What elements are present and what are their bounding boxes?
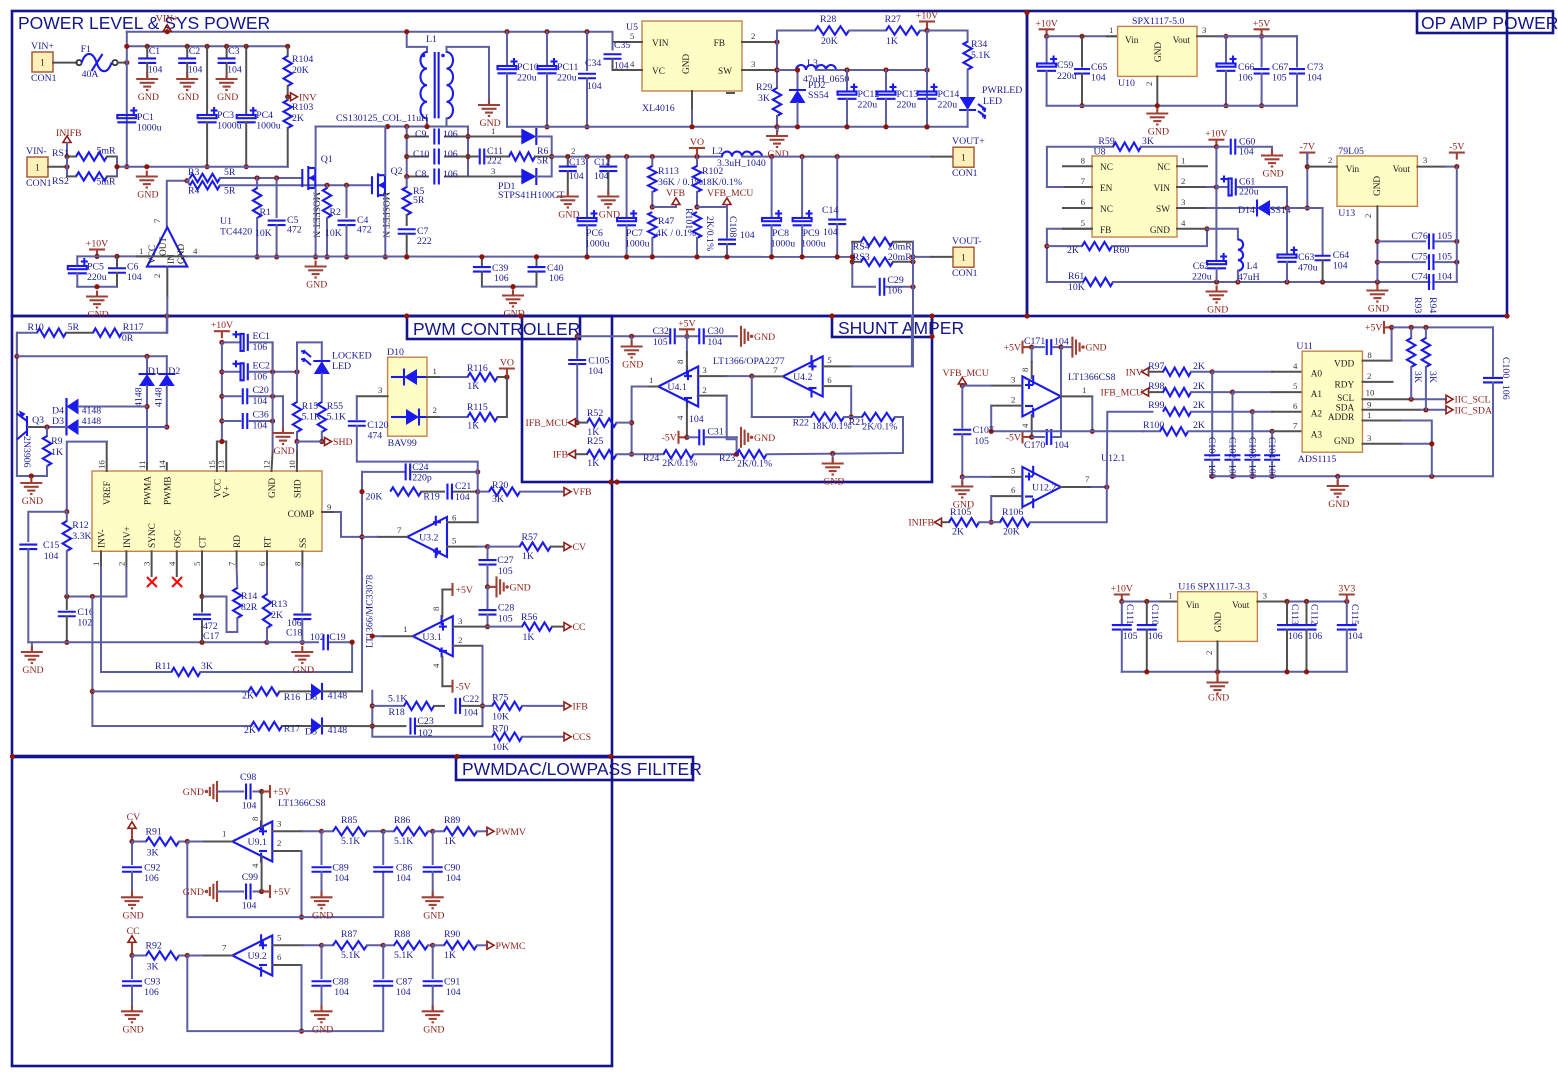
svg-text:L1: L1 xyxy=(426,34,437,45)
wire VREF xyxy=(64,442,106,515)
svg-text:4148: 4148 xyxy=(328,691,348,702)
wire U16 pin3 xyxy=(1257,591,1349,605)
svg-text:C91: C91 xyxy=(444,977,460,988)
svg-text:104: 104 xyxy=(1307,73,1322,84)
svg-text:222: 222 xyxy=(487,156,502,167)
svg-text:PC5: PC5 xyxy=(87,262,104,273)
svg-text:GND: GND xyxy=(123,910,144,921)
capacitor C31 xyxy=(687,427,737,446)
svg-text:2: 2 xyxy=(1204,651,1214,655)
svg-text:82R: 82R xyxy=(241,602,258,613)
capacitor C171 xyxy=(1024,336,1069,355)
svg-text:105: 105 xyxy=(498,614,513,625)
wire U1 IN pin2 xyxy=(166,267,168,333)
wire U12.1 out row xyxy=(991,430,1143,432)
svg-text:2: 2 xyxy=(152,274,162,278)
wire SHD xyxy=(297,442,322,472)
resistor RS4 xyxy=(852,238,913,253)
svg-text:VIN: VIN xyxy=(1153,184,1170,194)
capacitor C21 xyxy=(447,481,480,503)
svg-text:GND: GND xyxy=(22,665,43,676)
svg-text:C35: C35 xyxy=(614,40,630,51)
svg-text:IIC_SDA: IIC_SDA xyxy=(1455,405,1493,416)
svg-text:2K/0.1%: 2K/0.1% xyxy=(662,458,697,469)
svg-text:C13: C13 xyxy=(569,157,585,168)
svg-text:GND: GND xyxy=(504,309,525,320)
svg-text:472: 472 xyxy=(287,225,302,236)
power +5V U3.1 xyxy=(442,583,473,617)
op-amp U12.2 xyxy=(1022,466,1061,508)
svg-text:C18: C18 xyxy=(286,628,302,639)
resistor R97 xyxy=(1148,361,1215,376)
svg-text:3: 3 xyxy=(491,166,496,176)
diode D5 xyxy=(305,718,372,738)
capacitor C9 xyxy=(407,129,468,145)
svg-text:2: 2 xyxy=(116,562,126,566)
capacitor C23 xyxy=(372,716,482,739)
wire RS right xyxy=(114,157,119,177)
svg-text:+10V: +10V xyxy=(1205,129,1227,140)
resistor R93 xyxy=(1407,327,1415,399)
svg-text:4K / 0.1%: 4K / 0.1% xyxy=(656,228,696,239)
ground U10 xyxy=(1146,108,1169,138)
svg-text:4148: 4148 xyxy=(134,387,145,407)
svg-text:3: 3 xyxy=(1202,25,1207,35)
svg-text:220u: 220u xyxy=(1239,187,1259,198)
wire Q1 source xyxy=(313,188,318,260)
svg-text:+10V: +10V xyxy=(86,239,108,250)
svg-text:GND: GND xyxy=(1263,169,1284,180)
svg-text:R106: R106 xyxy=(1002,507,1023,518)
capacitor PC11 xyxy=(538,32,579,130)
svg-text:1K: 1K xyxy=(444,950,456,961)
wire GND return rail y167 xyxy=(117,166,288,168)
svg-text:R85: R85 xyxy=(341,815,357,826)
capacitor PC9 xyxy=(793,154,826,260)
resistor R61 xyxy=(1047,271,1113,293)
svg-text:C36: C36 xyxy=(253,410,269,421)
svg-text:104: 104 xyxy=(127,272,142,283)
capacitor C89 xyxy=(312,831,349,895)
LED LOCKED xyxy=(297,342,372,402)
power +10V U1 xyxy=(86,239,108,260)
svg-text:INV: INV xyxy=(1126,367,1143,378)
wire U3.1 pin1 xyxy=(370,624,413,639)
capacitor EC2 xyxy=(222,360,300,382)
wire +10V to C62 xyxy=(1215,147,1217,261)
svg-text:R60: R60 xyxy=(1113,245,1129,256)
svg-text:105: 105 xyxy=(1123,631,1138,642)
svg-text:SHD: SHD xyxy=(333,437,353,448)
svg-text:C8: C8 xyxy=(415,169,427,180)
wire D1 D2 cathode row xyxy=(17,355,167,357)
svg-text:104: 104 xyxy=(1054,337,1069,348)
svg-text:3: 3 xyxy=(378,385,383,395)
power flag VO xyxy=(689,137,705,157)
svg-text:LT1366CS8: LT1366CS8 xyxy=(1068,372,1116,383)
svg-text:IFB: IFB xyxy=(573,701,589,712)
power -5V U3.1 xyxy=(442,657,470,693)
ground C1 xyxy=(136,73,159,103)
svg-text:C32: C32 xyxy=(653,326,669,337)
svg-text:18K/0.1%: 18K/0.1% xyxy=(702,177,742,188)
svg-text:R20: R20 xyxy=(492,480,508,491)
ground C12 xyxy=(597,191,620,221)
svg-text:CC: CC xyxy=(573,622,586,633)
svg-text:C62: C62 xyxy=(1193,261,1209,272)
svg-text:12: 12 xyxy=(262,460,272,469)
wire shunt +5V row xyxy=(577,335,668,337)
wire -5V gnd rail xyxy=(1113,281,1430,283)
capacitor C115 xyxy=(1337,602,1363,672)
svg-text:R1: R1 xyxy=(260,207,272,218)
wire U10 gnd rail xyxy=(1047,76,1297,108)
svg-text:1: 1 xyxy=(1109,25,1113,35)
power -5V U4 xyxy=(662,431,690,444)
svg-text:R17: R17 xyxy=(284,724,300,735)
svg-text:FB: FB xyxy=(714,39,725,49)
fuse F1 xyxy=(76,44,117,80)
resistor RS2 xyxy=(67,172,117,187)
svg-text:SYNC: SYNC xyxy=(148,523,158,548)
resistor R92 xyxy=(132,941,190,973)
svg-text:PWMB: PWMB xyxy=(163,477,173,505)
svg-text:GND: GND xyxy=(423,1024,444,1035)
svg-text:R14: R14 xyxy=(241,591,257,602)
ground C88 xyxy=(311,1005,334,1035)
wire C39 C40 gnd xyxy=(473,254,546,289)
inductor L2 xyxy=(712,146,932,169)
wire U16 pin2 xyxy=(1204,641,1218,671)
svg-text:R22: R22 xyxy=(793,418,809,429)
svg-text:D6: D6 xyxy=(305,692,317,703)
svg-text:222: 222 xyxy=(417,236,432,247)
wire VO rail xyxy=(552,156,722,158)
svg-text:2: 2 xyxy=(433,405,437,415)
wire R16 R17 column xyxy=(90,597,95,727)
capacitor C4 xyxy=(338,185,372,259)
svg-text:3.3K: 3.3K xyxy=(72,531,91,542)
svg-text:1000u: 1000u xyxy=(625,239,650,250)
svg-text:C87: C87 xyxy=(396,977,412,988)
svg-text:2N3906: 2N3906 xyxy=(21,436,32,468)
svg-text:U9.2: U9.2 xyxy=(248,951,267,962)
capacitor C87 xyxy=(373,945,412,998)
capacitor C32 xyxy=(653,326,698,348)
capacitor C24 xyxy=(362,462,478,484)
svg-text:GND: GND xyxy=(138,92,159,103)
capacitor C170 xyxy=(1024,347,1069,451)
svg-text:INIFB: INIFB xyxy=(908,518,934,529)
net flag INV in xyxy=(1126,367,1149,378)
svg-text:RDY: RDY xyxy=(1335,381,1355,391)
svg-text:Q1: Q1 xyxy=(321,154,333,165)
svg-text:PC13: PC13 xyxy=(897,89,919,100)
capacitor C113 xyxy=(1277,602,1303,672)
resistor R23 xyxy=(719,450,853,470)
svg-text:4148: 4148 xyxy=(154,387,165,407)
svg-text:1000u: 1000u xyxy=(771,239,796,250)
svg-text:C12: C12 xyxy=(594,157,610,168)
svg-text:CV: CV xyxy=(127,812,141,823)
svg-text:105: 105 xyxy=(653,337,668,348)
wire D10 pin3 xyxy=(357,385,388,419)
svg-text:2K/0.1%: 2K/0.1% xyxy=(704,216,715,251)
svg-text:Vout: Vout xyxy=(1173,36,1191,46)
ground flag C98 xyxy=(183,781,217,802)
wire SCL xyxy=(1363,388,1447,402)
resistor R20 xyxy=(478,480,563,505)
svg-text:6: 6 xyxy=(277,952,282,962)
wire U8 VIN xyxy=(1177,184,1219,189)
pin number 1 U8 xyxy=(1181,155,1185,165)
svg-text:SW: SW xyxy=(1156,205,1170,215)
svg-text:R27: R27 xyxy=(885,14,901,25)
svg-text:11: 11 xyxy=(137,461,147,469)
wire +10V vertical xyxy=(924,31,929,130)
svg-text:XL4016: XL4016 xyxy=(642,103,675,114)
capacitor PC10 xyxy=(498,32,539,127)
svg-text:Vin: Vin xyxy=(1186,601,1200,611)
svg-text:20mR: 20mR xyxy=(888,252,912,263)
capacitor C17 xyxy=(193,597,219,643)
svg-text:R3: R3 xyxy=(188,167,200,178)
ground U16 xyxy=(1207,672,1230,704)
net flag CC out xyxy=(564,622,586,633)
svg-text:OP AMP POWER: OP AMP POWER xyxy=(1421,13,1558,33)
wire U4.1 pin2 xyxy=(698,385,737,454)
svg-text:3: 3 xyxy=(277,818,282,828)
svg-text:1: 1 xyxy=(403,624,407,634)
svg-text:PC14: PC14 xyxy=(938,89,960,100)
svg-text:106: 106 xyxy=(443,129,458,140)
ground flag C171 xyxy=(1061,337,1107,358)
resistor R89 xyxy=(433,815,487,847)
svg-text:1: 1 xyxy=(491,126,495,136)
capacitor C60 xyxy=(1216,137,1272,158)
wire U8 pin 7 left xyxy=(1063,176,1092,187)
svg-text:1K: 1K xyxy=(522,551,534,562)
svg-text:R29: R29 xyxy=(756,82,772,93)
resistor R34 xyxy=(963,39,990,96)
resistor R103 xyxy=(284,97,314,167)
svg-text:106: 106 xyxy=(253,372,268,383)
op-amp U1 TC4420 xyxy=(147,227,187,266)
svg-text:Q3: Q3 xyxy=(32,415,44,426)
svg-text:C88: C88 xyxy=(332,977,348,988)
wire R117 to U1 IN xyxy=(166,316,168,333)
svg-text:CON1: CON1 xyxy=(952,268,978,279)
wire ADS gnd rail xyxy=(1212,475,1493,477)
ground C91 xyxy=(422,1005,445,1035)
svg-text:2: 2 xyxy=(1367,371,1371,381)
svg-text:5.1K: 5.1K xyxy=(341,836,360,847)
svg-text:R19: R19 xyxy=(423,492,439,503)
net flag IFB_MCU xyxy=(526,418,576,429)
resistor R18 xyxy=(372,694,444,719)
svg-text:GND: GND xyxy=(312,1024,333,1035)
svg-text:2: 2 xyxy=(1144,82,1154,86)
resistor R1 xyxy=(253,178,272,260)
svg-text:R86: R86 xyxy=(394,815,410,826)
capacitor C90 xyxy=(423,831,461,895)
svg-text:C112: C112 xyxy=(1309,604,1320,625)
wire U9.2 pin7 xyxy=(187,943,232,956)
svg-text:2: 2 xyxy=(277,838,281,848)
resistor R55 xyxy=(318,401,346,444)
resistor R17 xyxy=(92,722,311,736)
svg-text:C73: C73 xyxy=(1307,62,1323,73)
pin number 4 U8 xyxy=(1181,218,1186,228)
wire PWM gnd rail xyxy=(28,641,266,643)
resistor R60 xyxy=(1047,226,1210,256)
wire VIN+ top rail xyxy=(127,32,642,42)
svg-text:10K: 10K xyxy=(492,712,509,723)
svg-text:GND: GND xyxy=(1328,499,1349,510)
svg-text:5.1K: 5.1K xyxy=(394,836,413,847)
wire Q2 source xyxy=(383,195,388,259)
ground C13 xyxy=(557,191,580,221)
net flag IFB out xyxy=(564,701,588,712)
svg-text:VFB_MCU: VFB_MCU xyxy=(707,188,753,199)
svg-text:7: 7 xyxy=(1085,474,1090,484)
IC D10 BAV99 xyxy=(387,347,427,449)
ground C107 xyxy=(951,477,974,511)
svg-text:LED: LED xyxy=(983,96,1002,107)
svg-text:1K: 1K xyxy=(51,447,63,458)
svg-text:C22: C22 xyxy=(463,694,479,705)
resistor R28 xyxy=(815,14,886,47)
wire U1 VCC row xyxy=(77,255,147,257)
capacitor C86 xyxy=(373,831,412,884)
transformer L1 xyxy=(421,34,454,118)
capacitor C120 xyxy=(348,420,478,472)
svg-text:8: 8 xyxy=(675,359,685,364)
svg-text:+5V: +5V xyxy=(456,585,474,596)
svg-text:R56: R56 xyxy=(521,612,537,623)
svg-text:3K: 3K xyxy=(147,848,159,859)
svg-text:106: 106 xyxy=(549,273,564,284)
wire PWMA xyxy=(144,404,149,471)
svg-text:PC3: PC3 xyxy=(217,110,234,121)
svg-text:4148: 4148 xyxy=(82,416,102,427)
svg-text:C15: C15 xyxy=(43,540,59,551)
svg-text:C98: C98 xyxy=(240,772,256,783)
ground U13 xyxy=(1366,285,1389,315)
svg-text:104: 104 xyxy=(455,492,470,503)
svg-text:-7V: -7V xyxy=(1300,142,1315,153)
wire L1 secondary top xyxy=(447,47,490,99)
svg-text:105: 105 xyxy=(974,436,989,447)
svg-text:R57: R57 xyxy=(522,532,538,543)
wire fuse to VIN rail xyxy=(118,60,130,65)
svg-text:1: 1 xyxy=(139,246,143,256)
svg-text:U8: U8 xyxy=(1094,147,1106,158)
svg-text:1000u: 1000u xyxy=(585,239,610,250)
power +5V C171 xyxy=(1004,341,1035,354)
svg-text:104: 104 xyxy=(334,987,349,998)
wire SYNC nc xyxy=(147,551,157,587)
wire U4.1 pin4 xyxy=(686,404,688,437)
svg-text:D10: D10 xyxy=(387,347,404,358)
wire U8 EN xyxy=(1047,186,1063,188)
svg-text:-5V: -5V xyxy=(1006,433,1021,444)
svg-text:GND: GND xyxy=(183,787,204,798)
svg-text:-5V: -5V xyxy=(456,682,471,693)
svg-text:104: 104 xyxy=(242,901,257,912)
svg-text:5.1K: 5.1K xyxy=(327,412,346,423)
power flag -7V xyxy=(1299,142,1315,211)
svg-text:INIFB: INIFB xyxy=(56,128,82,139)
svg-text:C19: C19 xyxy=(329,632,345,643)
svg-text:8: 8 xyxy=(292,561,302,566)
net flag CCS out xyxy=(564,732,591,743)
svg-text:4148: 4148 xyxy=(82,406,102,417)
ground C3 xyxy=(216,73,239,103)
svg-text:C2: C2 xyxy=(189,46,201,57)
svg-text:7: 7 xyxy=(1081,176,1086,186)
svg-text:D5: D5 xyxy=(305,727,317,738)
svg-text:3V3: 3V3 xyxy=(1338,584,1355,595)
resistor R86 xyxy=(383,815,435,847)
svg-text:3.3uH_1040: 3.3uH_1040 xyxy=(717,158,766,169)
wire U5 pin5 xyxy=(613,31,643,42)
svg-text:C14: C14 xyxy=(822,205,838,216)
svg-text:D1: D1 xyxy=(148,366,160,377)
resistor R57 xyxy=(488,532,564,562)
wire U5 SW pin3 xyxy=(742,59,796,73)
svg-text:0R: 0R xyxy=(122,333,134,344)
svg-text:4: 4 xyxy=(167,561,177,566)
LED PWRLED xyxy=(959,85,1022,119)
capacitor C10 xyxy=(407,149,468,165)
resistor R102 xyxy=(693,157,742,210)
transistor Q3 2N3906 xyxy=(17,411,44,440)
ground C92 xyxy=(121,891,144,921)
inductor L4 xyxy=(1238,229,1260,283)
svg-text:RT: RT xyxy=(264,536,274,548)
svg-text:OSC: OSC xyxy=(173,530,183,548)
svg-text:104: 104 xyxy=(569,171,584,182)
resistor R5 xyxy=(403,177,425,226)
capacitor C61 xyxy=(1216,176,1287,209)
svg-text:R4: R4 xyxy=(188,186,200,197)
svg-text:IFB_MCU: IFB_MCU xyxy=(1101,388,1143,399)
ground U1 supply xyxy=(86,291,109,321)
svg-text:102: 102 xyxy=(418,728,433,739)
capacitor C3 xyxy=(218,44,242,77)
svg-text:5R: 5R xyxy=(68,322,80,333)
svg-text:6: 6 xyxy=(1293,401,1298,411)
resistor R116 xyxy=(467,363,510,392)
capacitor C13 xyxy=(559,157,586,193)
svg-text:9: 9 xyxy=(1367,400,1372,410)
wire OSC nc xyxy=(172,551,182,587)
svg-text:C93: C93 xyxy=(144,977,160,988)
svg-text:1: 1 xyxy=(433,366,437,376)
capacitor C20 xyxy=(222,385,283,407)
svg-text:+10V: +10V xyxy=(916,11,938,22)
svg-text:104: 104 xyxy=(253,396,268,407)
svg-text:104: 104 xyxy=(614,61,629,72)
svg-text:R9: R9 xyxy=(51,436,63,447)
svg-text:R52: R52 xyxy=(587,408,603,419)
diode PD2 SS54 xyxy=(789,67,829,129)
capacitor C88 xyxy=(312,945,349,1009)
wire U5 GND pin xyxy=(689,91,734,129)
svg-text:ADS1115: ADS1115 xyxy=(1298,454,1337,465)
wire U8 pin 8 left xyxy=(1063,155,1092,166)
